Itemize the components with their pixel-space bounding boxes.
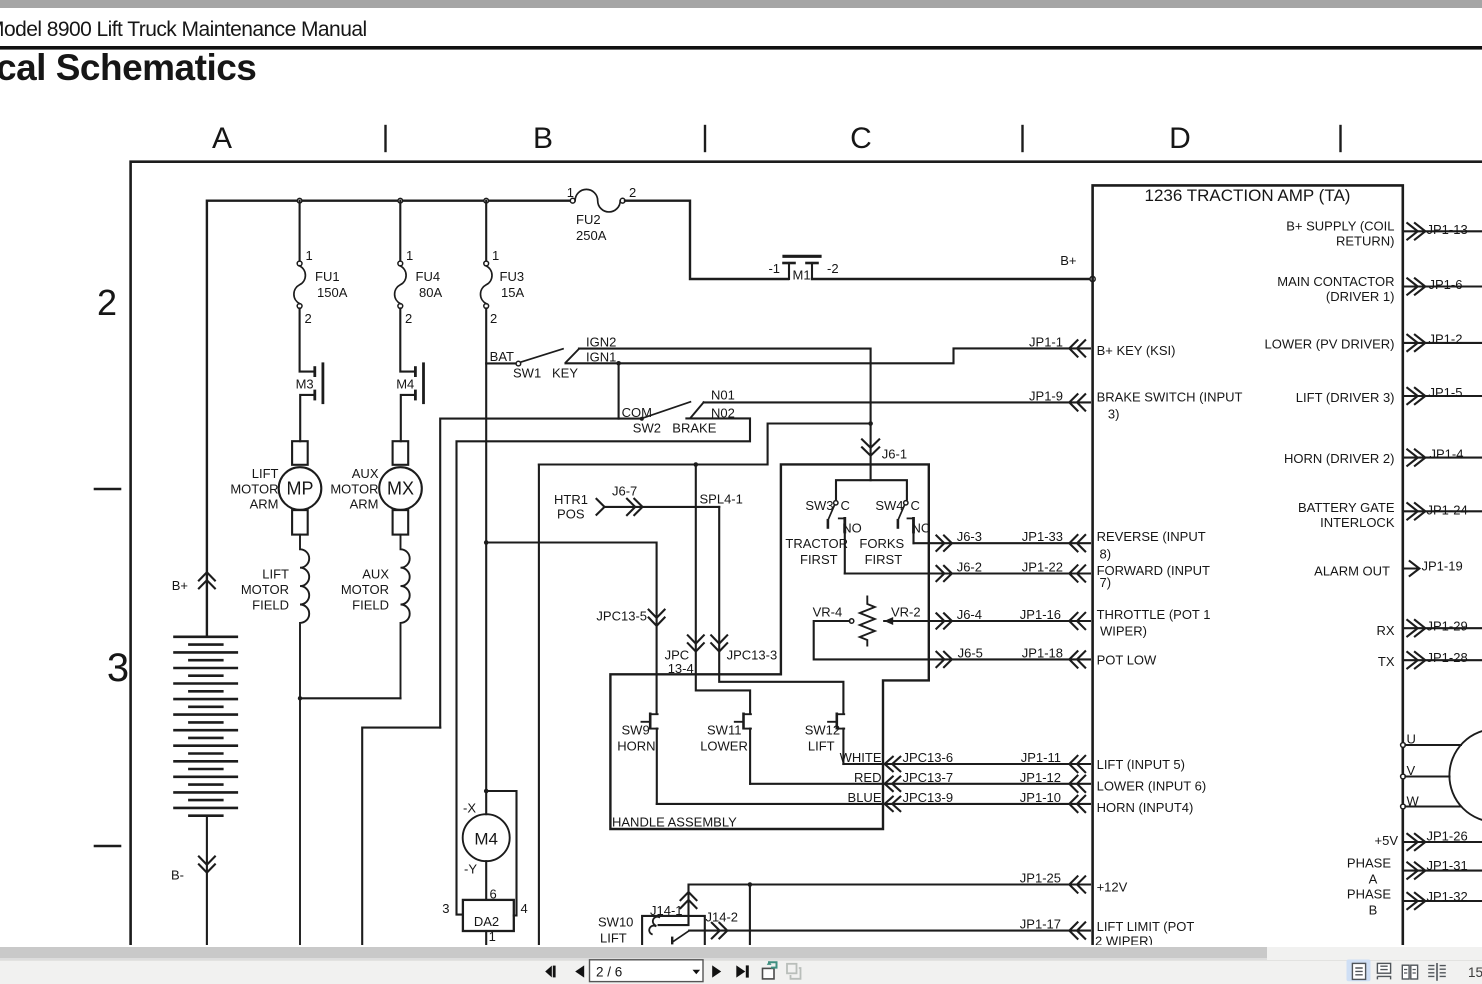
fuse FU4 80A — [398, 261, 403, 266]
svg-text:W: W — [1407, 794, 1420, 809]
wire key to JPC13-5 to SW9 — [486, 543, 656, 713]
svg-text:C: C — [911, 498, 920, 513]
wire W phase — [1405, 805, 1460, 807]
svg-text:KEY: KEY — [552, 366, 578, 381]
connector JP1-11 — [1069, 756, 1085, 772]
svg-text:REVERSE (INPUT: REVERSE (INPUT — [1097, 529, 1206, 544]
connector JP1-6 — [1407, 278, 1425, 294]
svg-text:JP1-19: JP1-19 — [1422, 559, 1463, 574]
svg-text:JPC13-6: JPC13-6 — [903, 750, 954, 765]
wire N01 to JP1-9 — [704, 401, 1090, 403]
wire JP1-5 out — [1403, 395, 1482, 397]
svg-text:2: 2 — [405, 311, 412, 326]
svg-text:B+ SUPPLY (COIL: B+ SUPPLY (COIL — [1286, 219, 1394, 234]
labels UVW — [1407, 732, 1420, 809]
svg-text:N02: N02 — [711, 406, 735, 421]
wire VR2 wiper to JP1-16 — [929, 620, 1090, 622]
svg-text:INTERLOCK: INTERLOCK — [1320, 515, 1395, 530]
svg-text:IGN2: IGN2 — [586, 335, 616, 350]
svg-text:JP1-24: JP1-24 — [1427, 503, 1468, 518]
svg-text:LIFT LIMIT (POT: LIFT LIMIT (POT — [1097, 919, 1195, 934]
button previous view — [763, 961, 777, 979]
connector JP1-26 — [1407, 834, 1425, 850]
svg-text:JP1-4: JP1-4 — [1430, 446, 1464, 461]
connector chevrons B- — [199, 857, 215, 873]
svg-text:2: 2 — [97, 282, 117, 323]
connector JPC13-5 — [649, 610, 665, 626]
svg-text:LIFT: LIFT — [252, 466, 279, 481]
motor traction 3phase — [1449, 729, 1482, 822]
grid tick C|D — [1021, 126, 1023, 151]
fuse FU2 250A — [570, 198, 575, 203]
svg-text:A: A — [1369, 871, 1378, 886]
svg-text:JPC13-9: JPC13-9 — [903, 790, 954, 805]
connector JP1-24 — [1407, 503, 1425, 519]
svg-text:cal Schematics: cal Schematics — [0, 47, 256, 88]
wire RED SW11 to JP1-12 — [750, 783, 1090, 785]
wire JP1-31 out — [1403, 870, 1482, 872]
svg-text:JP1-10: JP1-10 — [1020, 790, 1061, 805]
svg-text:LIFT (INPUT 5): LIFT (INPUT 5) — [1097, 757, 1185, 772]
battery BAT — [175, 637, 237, 816]
svg-text:1: 1 — [567, 185, 574, 200]
svg-text:BATTERY GATE: BATTERY GATE — [1298, 500, 1395, 515]
labels JPC13 right — [903, 750, 954, 805]
svg-text:13-4: 13-4 — [668, 661, 694, 676]
connector JP1-29 — [1407, 620, 1425, 636]
svg-text:-2: -2 — [827, 261, 839, 276]
svg-text:-Y: -Y — [464, 862, 477, 877]
svg-text:SW3: SW3 — [805, 498, 833, 513]
svg-text:J6-2: J6-2 — [957, 560, 982, 575]
labels AUX MOTOR FIELD — [341, 567, 389, 613]
scrollbar track — [0, 947, 1482, 960]
connector JP1-32 — [1407, 893, 1425, 909]
svg-text:JP1-33: JP1-33 — [1022, 529, 1063, 544]
labels SW2 BRAKE — [622, 388, 735, 436]
svg-text:B: B — [1369, 902, 1378, 917]
page mode facing — [1402, 965, 1417, 979]
svg-text:FORWARD (INPUT: FORWARD (INPUT — [1097, 563, 1210, 578]
connector JP1-25 — [1069, 876, 1085, 892]
svg-text:PHASE: PHASE — [1347, 887, 1391, 902]
svg-text:4: 4 — [521, 901, 528, 916]
svg-text:JP1-32: JP1-32 — [1427, 889, 1468, 904]
wire SW2 COM down to bottom — [362, 728, 440, 945]
wire FU2 to M1 — [625, 201, 788, 279]
wire JP1-4 out — [1403, 457, 1482, 459]
wire MX field tie to MP — [300, 697, 401, 699]
svg-text:LIFT: LIFT — [808, 739, 835, 754]
contactor M3 — [300, 364, 323, 441]
inductor LIFT MOTOR FIELD — [300, 535, 309, 945]
svg-text:AUX: AUX — [362, 567, 389, 582]
labels FU1 — [305, 248, 348, 326]
switch SW3 TRACTOR FIRST — [828, 501, 845, 574]
svg-text:NO: NO — [842, 521, 862, 536]
svg-text:JP1-28: JP1-28 — [1427, 650, 1468, 665]
labels JP1 outputs — [1422, 222, 1468, 904]
svg-text:MAIN CONTACTOR: MAIN CONTACTOR — [1277, 274, 1394, 289]
toolbar background — [0, 960, 1482, 984]
connector J6-3 — [936, 536, 952, 551]
svg-text:-1: -1 — [768, 261, 780, 276]
wire IGN2 branch down to bottom — [538, 465, 540, 946]
wire FU3 to DA2 pin4 — [486, 791, 516, 916]
labels TA outputs — [1264, 219, 1398, 902]
connector J14-1 — [681, 892, 697, 908]
wire HTR1 J6-7 — [597, 499, 720, 515]
labels FU4 — [405, 248, 442, 326]
svg-text:MOTOR: MOTOR — [341, 582, 389, 597]
button next page — [712, 965, 721, 977]
labels SW9 SW11 SW12 — [617, 723, 840, 754]
row tick 2/3 — [95, 488, 120, 491]
scrollbar thumb — [0, 947, 1267, 958]
svg-text:JPC13-5: JPC13-5 — [596, 609, 647, 624]
svg-text:VR-4: VR-4 — [813, 605, 843, 620]
svg-text:15: 15 — [1468, 965, 1482, 980]
connector JPC13-6 — [885, 757, 901, 772]
svg-text:FORKS: FORKS — [859, 536, 904, 551]
svg-text:MP: MP — [287, 479, 314, 499]
svg-text:M4: M4 — [396, 377, 414, 392]
node bus tap FU3 — [484, 198, 489, 203]
svg-text:JP1-11: JP1-11 — [1021, 750, 1061, 765]
svg-text:NC: NC — [912, 521, 931, 536]
svg-text:JP1-9: JP1-9 — [1029, 388, 1063, 403]
svg-text:2 / 6: 2 / 6 — [596, 965, 622, 980]
labels TA inputs — [1095, 343, 1243, 949]
enclosure pod and handle assembly outline — [610, 464, 928, 829]
connector JP1-1 — [1069, 340, 1085, 356]
svg-text:LOWER (PV DRIVER): LOWER (PV DRIVER) — [1264, 336, 1394, 351]
svg-text:JP1-16: JP1-16 — [1020, 607, 1061, 622]
wire JP1-19 alarm out — [1403, 567, 1418, 569]
svg-text:B+: B+ — [1060, 253, 1076, 268]
wire FU1 to M3 — [300, 308, 314, 371]
svg-text:MX: MX — [387, 479, 414, 499]
svg-text:1: 1 — [489, 929, 496, 944]
wire JP1-13 out — [1403, 230, 1482, 232]
labels M1 — [768, 261, 838, 283]
connector J14-2 — [712, 923, 728, 939]
border frame — [131, 162, 1482, 945]
labels SW3 — [785, 498, 861, 567]
labels JP1 inputs — [1020, 334, 1063, 931]
svg-text:MOTOR: MOTOR — [241, 582, 289, 597]
svg-text:2: 2 — [305, 311, 312, 326]
connector JPC13-9 — [885, 797, 901, 812]
svg-text:SW11: SW11 — [707, 723, 741, 738]
motor M4 steering — [463, 791, 510, 900]
labels JPC13 connectors — [596, 609, 777, 677]
node W terminal — [1401, 804, 1406, 809]
svg-text:A: A — [212, 122, 232, 155]
svg-text:SW10: SW10 — [598, 915, 633, 930]
svg-text:2: 2 — [629, 185, 636, 200]
wire SW3 SW4 commons — [836, 480, 907, 499]
connector J6-1 — [862, 424, 879, 481]
connector JP1-33 — [1069, 535, 1085, 551]
grid tick B|C — [704, 126, 706, 151]
labels J14 SW10 — [598, 903, 738, 946]
svg-text:FU3: FU3 — [500, 269, 525, 284]
wire FU3 to BAT and M4 — [485, 308, 487, 791]
svg-text:FIELD: FIELD — [352, 598, 389, 613]
page number box — [590, 960, 704, 982]
svg-text:SW1: SW1 — [513, 366, 541, 381]
svg-text:LOWER: LOWER — [700, 739, 748, 754]
svg-text:3): 3) — [1108, 407, 1120, 422]
svg-text:JP1-25: JP1-25 — [1020, 870, 1061, 885]
connector JP1-28 — [1407, 652, 1425, 668]
svg-text:LOWER (INPUT 6): LOWER (INPUT 6) — [1097, 778, 1207, 793]
node JPC13-4 tap — [694, 462, 699, 467]
svg-text:B: B — [533, 122, 553, 155]
connector JP1-17 — [1069, 922, 1085, 938]
connector JP1-10 — [1069, 796, 1085, 812]
connector JPC13-7 — [885, 777, 901, 792]
svg-text:(DRIVER 1): (DRIVER 1) — [1326, 289, 1395, 304]
svg-text:N01: N01 — [711, 388, 735, 403]
svg-text:SW12: SW12 — [805, 723, 840, 738]
svg-text:WIPER): WIPER) — [1100, 623, 1147, 638]
svg-text:RX: RX — [1376, 623, 1394, 638]
svg-text:3: 3 — [442, 901, 449, 916]
svg-text:MOTOR: MOTOR — [330, 482, 378, 497]
svg-text:B+ KEY (KSI): B+ KEY (KSI) — [1097, 343, 1176, 358]
wire battery to B- — [206, 816, 208, 945]
svg-text:VR-2: VR-2 — [891, 605, 921, 620]
potentiometer VR throttle — [814, 597, 1090, 660]
wire N02 return to DA2 pin3 — [457, 418, 751, 914]
node JPC13-5 tap — [484, 540, 489, 545]
switch SW2 BRAKE — [440, 402, 704, 728]
svg-text:ALARM OUT: ALARM OUT — [1314, 563, 1390, 578]
svg-text:M3: M3 — [296, 377, 314, 392]
svg-text:DA2: DA2 — [474, 914, 499, 929]
fuse FU1 150A — [297, 261, 302, 266]
connector JP1-19 — [1410, 561, 1420, 576]
node U terminal — [1401, 743, 1406, 748]
svg-text:V: V — [1407, 763, 1416, 778]
connector JPC13-3 — [711, 635, 727, 651]
labels HTR1 J6-7 SPL4-1 — [554, 484, 743, 522]
svg-text:+5V: +5V — [1375, 833, 1399, 848]
wire BLUE SW9 to JP1-10 — [657, 803, 1090, 805]
node bus tap FU4 — [398, 198, 403, 203]
connector JP1-13 — [1407, 223, 1425, 239]
wire SW3 to JP1-22 — [845, 572, 1090, 574]
connector JP1-5 — [1407, 388, 1425, 404]
svg-text:1: 1 — [306, 248, 313, 263]
wire JP1-29 RX out — [1403, 627, 1482, 629]
svg-text:M4: M4 — [474, 830, 498, 849]
svg-text:B+: B+ — [172, 578, 188, 593]
labels wire colors — [840, 750, 882, 805]
svg-text:IGN1: IGN1 — [586, 350, 616, 365]
svg-text:6: 6 — [490, 887, 497, 902]
svg-text:J6-4: J6-4 — [957, 607, 982, 622]
svg-text:J14-1: J14-1 — [650, 903, 683, 918]
button next view disabled — [787, 964, 801, 979]
svg-text:HORN (INPUT4): HORN (INPUT4) — [1097, 800, 1194, 815]
box 1236 TRACTION AMP — [1093, 185, 1403, 945]
connector JP1-12 — [1069, 776, 1085, 792]
node J6-1 junction — [868, 421, 873, 426]
contactor M4 — [401, 364, 424, 441]
svg-text:FIRST: FIRST — [800, 552, 838, 567]
svg-text:SPL4-1: SPL4-1 — [700, 492, 743, 507]
svg-text:150A: 150A — [317, 285, 348, 300]
node bus tap FU1 — [297, 198, 302, 203]
page mode continuous facing — [1428, 963, 1446, 981]
wire IGN1 — [566, 348, 1091, 363]
connector J6-2 — [936, 566, 952, 581]
switch SW10 LIFT SELECT — [642, 916, 705, 945]
motor MX armature — [379, 441, 422, 534]
svg-text:TRACTOR: TRACTOR — [785, 536, 848, 551]
svg-text:JP1-31: JP1-31 — [1427, 858, 1468, 873]
svg-text:JP1-17: JP1-17 — [1020, 917, 1061, 932]
svg-text:RED: RED — [854, 770, 881, 785]
svg-text:15A: 15A — [501, 285, 524, 300]
svg-text:J14-2: J14-2 — [706, 910, 739, 925]
grid tick A|B — [384, 126, 386, 151]
svg-text:WHITE: WHITE — [840, 750, 882, 765]
wire +12V to J14-1 — [659, 885, 1090, 926]
wire U phase — [1405, 744, 1461, 746]
svg-text:COM: COM — [622, 405, 652, 420]
svg-text:JP1-12: JP1-12 — [1020, 770, 1061, 785]
splice SPL4-1 to JPC13-3 to SW12 — [719, 507, 843, 713]
node V terminal — [1401, 774, 1406, 779]
svg-text:M1: M1 — [793, 268, 811, 283]
svg-text:1236 TRACTION AMP (TA): 1236 TRACTION AMP (TA) — [1145, 186, 1351, 205]
connector J6-5 — [936, 652, 952, 667]
svg-text:LIFT (DRIVER 3): LIFT (DRIVER 3) — [1296, 390, 1395, 405]
inductor AUX MOTOR FIELD — [401, 535, 410, 699]
svg-text:3: 3 — [107, 646, 129, 690]
svg-text:250A: 250A — [576, 228, 607, 243]
wire JP1-24 out — [1403, 510, 1482, 512]
connector socket J14-1 mate — [649, 917, 659, 934]
connector JP1-2 — [1407, 335, 1425, 351]
labels VR — [813, 605, 921, 620]
top gray bar — [0, 0, 1482, 8]
switch SW12 LIFT — [828, 714, 844, 764]
svg-text:SW2: SW2 — [633, 421, 661, 436]
svg-text:FU2: FU2 — [576, 212, 601, 227]
row tick 3/4 — [95, 845, 120, 848]
svg-text:SW9: SW9 — [622, 723, 650, 738]
connector JP1-9 — [1069, 394, 1085, 410]
svg-text:FIRST: FIRST — [865, 552, 903, 567]
svg-text:JPC13-7: JPC13-7 — [903, 770, 954, 785]
svg-text:PHASE: PHASE — [1347, 856, 1391, 871]
svg-text:BAT: BAT — [490, 349, 514, 364]
svg-text:1: 1 — [406, 248, 413, 263]
wire SW10 via J14-2 to JP1-17 — [689, 930, 1090, 932]
connector JP1-22 — [1069, 565, 1085, 581]
node B+ terminal on TA — [1090, 276, 1095, 281]
svg-text:C: C — [850, 122, 872, 155]
connector J6-4 — [936, 613, 952, 628]
labels SW4 — [859, 498, 930, 567]
wire J6-1 feed left — [539, 424, 871, 465]
page mode single active — [1347, 960, 1371, 982]
wire J14 riser — [749, 885, 751, 946]
svg-text:SW4: SW4 — [875, 498, 903, 513]
module DA2 — [463, 900, 514, 945]
svg-text:JP1-22: JP1-22 — [1022, 560, 1063, 575]
svg-text:2: 2 — [490, 311, 497, 326]
svg-text:HANDLE ASSEMBLY: HANDLE ASSEMBLY — [612, 815, 737, 830]
svg-text:JP1-29: JP1-29 — [1427, 619, 1468, 634]
wire JP1-6 out — [1403, 285, 1482, 287]
grid tick D| — [1339, 126, 1341, 151]
motor MP armature — [279, 441, 322, 534]
page cut strip — [0, 945, 1482, 949]
contactor M1 — [784, 256, 821, 279]
svg-text:JP1-1: JP1-1 — [1029, 334, 1063, 349]
svg-text:LIFT: LIFT — [600, 931, 627, 946]
switch SW11 LOWER — [735, 714, 751, 784]
wire SW4 to JP1-33 — [914, 542, 1091, 544]
svg-text:D: D — [1169, 122, 1191, 155]
wire IGN1 to SW2 COM — [618, 363, 620, 418]
wire IGN2 — [579, 349, 871, 424]
fuse FU3 15A — [484, 261, 489, 266]
wire JP1-2 out — [1403, 342, 1482, 344]
labels J6 — [957, 529, 983, 660]
wire JP1-28 TX out — [1403, 659, 1482, 661]
wire FU4 drop — [399, 201, 401, 261]
svg-text:C: C — [841, 498, 850, 513]
svg-text:JP1-18: JP1-18 — [1022, 645, 1063, 660]
wire JP1-32 out — [1403, 900, 1482, 902]
svg-text:U: U — [1407, 732, 1416, 747]
svg-text:J6-5: J6-5 — [958, 645, 983, 660]
node field tie — [298, 696, 302, 700]
connector JP1-4 — [1407, 449, 1425, 465]
connector JP1-16 — [1069, 613, 1085, 629]
svg-text:JP1-2: JP1-2 — [1429, 332, 1463, 347]
page mode continuous — [1377, 963, 1390, 979]
svg-text:MOTOR: MOTOR — [230, 482, 278, 497]
svg-text:B-: B- — [171, 868, 184, 883]
svg-text:FU1: FU1 — [315, 269, 340, 284]
button first page — [545, 966, 555, 978]
svg-text:POT LOW: POT LOW — [1097, 653, 1157, 668]
svg-text:FU4: FU4 — [416, 269, 441, 284]
wire JP1-26 out — [1403, 841, 1482, 843]
button prev page — [575, 965, 584, 977]
node M4 tap — [484, 789, 489, 794]
svg-text:Model 8900 Lift Truck Maintena: Model 8900 Lift Truck Maintenance Manual — [0, 18, 367, 41]
svg-text:JP1-6: JP1-6 — [1429, 277, 1463, 292]
connector JPC13-4 — [688, 635, 704, 651]
svg-text:7): 7) — [1100, 575, 1112, 590]
svg-text:HTR1: HTR1 — [554, 492, 588, 507]
svg-text:JP1-5: JP1-5 — [1429, 385, 1463, 400]
wire WHITE SW12 to JP1-11 — [843, 763, 1090, 765]
node J14 junction — [748, 882, 753, 887]
svg-text:HORN: HORN — [617, 739, 655, 754]
svg-text:BRAKE: BRAKE — [672, 421, 716, 436]
wire FU3 drop — [485, 201, 487, 261]
